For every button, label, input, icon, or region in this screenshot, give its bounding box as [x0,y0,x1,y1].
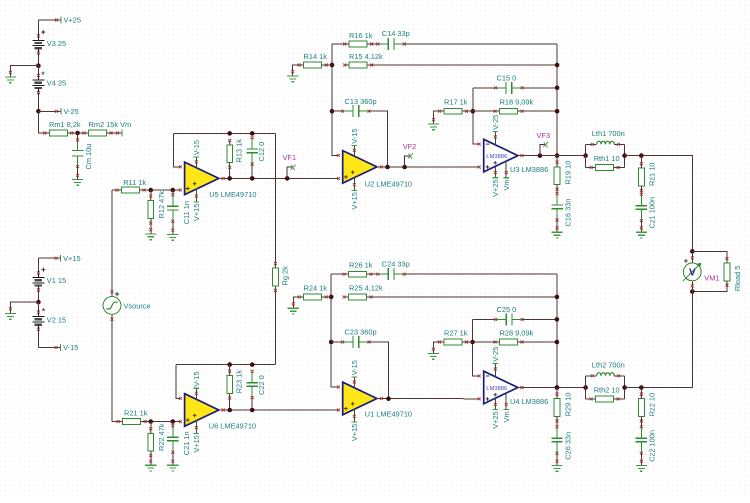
wire U4 output row [518,387,586,389]
wire U3 inverting node [473,88,479,144]
resistor R22 [150,422,152,429]
wire [371,296,557,298]
node junction [622,385,627,390]
svg-text:V+15: V+15 [192,435,201,452]
wire [176,364,275,366]
wire U6 feedback [176,365,180,399]
ground [288,308,299,314]
node junction [555,340,560,345]
capacitor Cz2 [640,427,642,438]
node V-25 tag [38,110,61,112]
resistor R23 [229,371,231,376]
wire [172,221,174,234]
resistor Rth2 [586,398,592,400]
svg-text:C25 0: C25 0 [497,305,517,314]
ground [428,354,439,360]
power pin V-15 [353,377,355,389]
node junction [148,419,153,424]
node junction [385,165,390,170]
svg-text:V-25: V-25 [64,107,79,116]
wire [522,87,557,89]
wire [640,186,642,194]
wire [522,318,557,320]
resistor R28 [495,341,500,343]
wire [326,296,331,298]
node junction V-25 [36,109,41,114]
node junction [171,419,176,424]
capacitor C15 [496,87,506,89]
svg-text:R11 1k: R11 1k [123,178,146,187]
wire R11 row [112,189,117,191]
resistor R26 [344,273,349,275]
wire [640,416,642,426]
wire to ground [10,66,38,77]
svg-text:Cz1 100n: Cz1 100n [648,197,657,229]
svg-text:LM3886: LM3886 [486,154,507,160]
node junction [555,63,560,68]
power pin V-15 [195,388,197,400]
node junction [75,131,80,136]
inductor Lth1 [586,143,597,145]
wire [467,110,473,112]
node junction [171,188,176,193]
svg-text:U2 LME49710: U2 LME49710 [365,179,412,188]
wire R17 ground [434,111,440,124]
wire U2 inverting node [332,44,339,155]
battery V3 [32,39,44,41]
wire [473,110,495,112]
wire R21 row [112,421,118,423]
svg-text:*: * [42,307,46,317]
capacitor Cz1 [640,194,642,205]
wire U5 output row [219,177,339,179]
wire R26 row [331,273,344,275]
node junction [329,295,334,300]
svg-text:R21 1k: R21 1k [124,408,148,417]
resistor R18 [495,110,500,112]
wire C15 row [473,87,496,89]
svg-text:LM3886: LM3886 [486,386,507,392]
op-amp U5 [185,162,219,195]
node junction [470,340,475,345]
svg-text:Lth1 700n: Lth1 700n [592,129,625,138]
svg-text:Rm1 8,2k: Rm1 8,2k [49,120,81,129]
battery V2 [32,316,44,318]
wire [77,133,79,140]
capacitor Cm [77,140,79,150]
svg-text:C21 1n: C21 1n [182,431,191,455]
inductor Lth2 [586,375,597,377]
node junction [639,153,644,158]
svg-text:V-25: V-25 [491,115,500,130]
ground [145,234,156,240]
voltage pin VF1 [287,167,293,178]
resistor R27 [440,341,445,343]
wire L/R loop left [585,144,587,167]
node Vm tag [121,130,123,137]
wire [111,314,113,421]
svg-text:C12 0: C12 0 [257,142,266,162]
ground [5,77,16,83]
svg-text:V+15: V+15 [350,192,359,209]
svg-text:Rth2 10: Rth2 10 [594,386,620,395]
wire [473,341,495,343]
node junction [250,176,255,181]
svg-text:R16 1k: R16 1k [349,31,373,40]
wire [37,66,39,73]
svg-text:U5 LME49710: U5 LME49710 [209,190,256,199]
svg-text:C13 360p: C13 360p [345,97,377,106]
svg-text:C15 0: C15 0 [497,74,517,83]
svg-text:C11 1n: C11 1n [182,201,191,224]
resistor Rload [724,263,730,281]
svg-text:U6 LME49710: U6 LME49710 [209,421,256,430]
wire [625,387,642,389]
node V+25 tag [38,19,61,21]
svg-text:V-15: V-15 [350,128,359,143]
svg-text:V+15: V+15 [63,254,80,263]
svg-text:C14 33p: C14 33p [382,29,410,38]
resistor R15 [345,64,350,66]
svg-text:Vm: Vm [502,411,511,422]
wire [145,421,180,423]
svg-text:R15 4,12k: R15 4,12k [349,52,383,61]
svg-text:V4 25: V4 25 [47,79,66,88]
resistor R19 [556,156,558,167]
node junction [250,408,255,413]
node junction [329,340,334,345]
capacitor C13 [343,110,353,112]
power pin V-25 [494,132,496,145]
node V-15 tag [38,346,60,348]
svg-text:R12 47k: R12 47k [157,191,166,219]
power pin Vm [505,161,507,178]
wire [640,453,642,465]
wire U4 inverting node [473,319,480,376]
capacitor C16 [556,194,558,205]
wire [371,273,378,275]
node junction [690,249,695,254]
capacitor C23 row [331,341,342,343]
svg-text:R28 9,09k: R28 9,09k [500,329,534,338]
power pin V+15 [353,177,355,191]
wire [37,95,39,111]
wire [641,292,692,388]
wire [37,20,39,33]
svg-text:R24 1k: R24 1k [304,284,328,293]
ground [428,124,439,130]
wire U1 output row [377,398,479,400]
resistor R29 [556,388,558,399]
op-amp U3 [484,139,518,172]
node junction [471,109,476,114]
wire [150,223,152,234]
svg-text:R22 47k: R22 47k [157,423,166,451]
wire feedback vertical [556,44,558,156]
wire [72,132,84,134]
wire U3 output row [518,155,586,157]
node junction [36,300,41,305]
svg-text:Rm2 15k Vm: Rm2 15k Vm [89,120,132,129]
voltmeter VM1 [691,251,693,263]
svg-text:R14 1k: R14 1k [304,52,328,61]
wire feedback vertical [556,274,558,387]
capacitor C21 [172,422,174,426]
node junction [555,385,560,390]
node junction [227,362,232,367]
node junction [36,63,41,68]
node junction [227,176,232,181]
ground [167,465,178,471]
svg-text:R26 1k: R26 1k [349,261,373,270]
power pin V+25 [494,398,496,409]
power pin V+15 [353,408,355,422]
node junction VF1 [285,176,290,181]
node V+15 tag [38,257,60,259]
wire [372,64,557,66]
wire [556,220,558,232]
wire L/R loop left [585,376,587,399]
svg-text:Vm: Vm [502,179,511,190]
wire [625,156,693,252]
svg-text:R25 4,12k: R25 4,12k [349,284,383,293]
wire U2 output row [377,166,479,168]
wire R14 left ground [293,65,300,76]
svg-text:C24 33p: C24 33p [382,260,410,269]
power pin V-15 [353,145,355,157]
wire [172,452,174,465]
wire [150,456,152,466]
ground [636,466,647,472]
power pin V+15 [195,420,197,434]
power pin V-25 [494,364,496,378]
wire [38,111,44,133]
power pin Vm [505,393,507,410]
svg-text:VF2: VF2 [403,142,417,151]
node junction [555,295,560,300]
resistor R25 [344,296,349,298]
svg-text:Cm 10u: Cm 10u [84,144,93,170]
resistor Rz1 [640,156,642,169]
node junction [250,131,255,136]
ground [287,76,298,82]
svg-text:Lth2 700n: Lth2 700n [592,361,625,370]
capacitor C26 [556,427,558,438]
op-amp U1 [343,382,377,415]
svg-text:V+15: V+15 [350,424,359,441]
svg-text:VF3: VF3 [537,131,551,140]
svg-text:R23 1k: R23 1k [235,370,244,394]
resistor R16 [345,43,350,45]
wire [372,43,378,45]
svg-text:Rload 5: Rload 5 [733,266,742,291]
wire U1 inverting node [331,274,338,387]
wire [692,251,727,263]
node junction [386,396,391,401]
wire [326,64,332,66]
wire L/R loop right [624,144,626,167]
svg-text:V+15: V+15 [192,204,201,221]
svg-text:V: V [689,268,696,279]
capacitor C23 [343,341,353,343]
svg-text:R18 9,09k: R18 9,09k [500,98,534,107]
svg-text:V3 25: V3 25 [47,39,66,48]
wire [37,55,39,65]
voltage source Vsource [103,297,121,315]
svg-text:U3 LM3886: U3 LM3886 [510,165,548,174]
resistor Rg [274,133,276,263]
svg-text:V-15: V-15 [192,140,201,155]
capacitor C22 [251,371,253,382]
wire U6 output row [219,409,339,411]
op-amp U2 [343,151,377,184]
node junction [555,153,560,158]
svg-text:V+25: V+25 [491,411,500,428]
resistor R12 [150,190,152,196]
resistor R21 [118,421,123,423]
svg-text:*: * [41,70,45,80]
svg-text:V-15: V-15 [350,360,359,375]
wire to ground [10,302,38,313]
svg-text:R27 1k: R27 1k [444,329,468,338]
ground [72,180,83,186]
svg-text:Rz1 10: Rz1 10 [648,163,657,186]
power pin V+15 [195,188,197,202]
node junction [555,317,560,322]
svg-text:V-15: V-15 [63,343,78,352]
capacitor C14 [378,43,388,45]
wire [692,281,727,292]
battery V4 [32,79,44,81]
voltage pin VF2 [405,156,411,167]
node junction [622,153,627,158]
resistor R11 [117,189,122,191]
wire [556,453,558,465]
capacitor C25 [496,318,506,320]
capacitor C11 [172,190,174,195]
power pin V-15 [195,157,197,169]
node junction VF3 [538,153,543,158]
resistor R17 [440,110,445,112]
wire [144,189,180,191]
svg-text:U4 LM3886: U4 LM3886 [510,397,548,406]
svg-text:V1 15: V1 15 [47,276,66,285]
wire [111,190,113,296]
wire [369,342,389,399]
svg-text:R29 10: R29 10 [563,392,572,416]
wire [37,332,39,348]
power pin V+25 [494,166,496,177]
resistor Rm1 [45,132,50,134]
node junction [330,109,335,114]
svg-text:C16 33n: C16 33n [563,199,572,227]
svg-text:VM1: VM1 [704,274,719,283]
node junction [250,362,255,367]
svg-text:C23 360p: C23 360p [345,328,377,337]
svg-text:V2 15: V2 15 [47,315,66,324]
svg-text:R17 1k: R17 1k [444,98,468,107]
svg-text:V-15: V-15 [192,371,201,386]
battery V1 [32,276,44,278]
node junction [555,86,560,91]
resistor R13 [229,140,231,145]
svg-text:R19 10: R19 10 [563,161,572,185]
wire [174,132,276,134]
svg-text:Rg 2k: Rg 2k [281,266,290,286]
ground [552,232,563,238]
wire [37,293,39,303]
wire [37,258,39,270]
wire [404,43,557,45]
wire [111,132,122,134]
op-amp U4 [484,371,518,404]
resistor Rth1 [586,166,592,168]
svg-text:V+25: V+25 [64,16,81,25]
svg-text:VF1: VF1 [283,153,297,162]
node junction [555,109,560,114]
svg-text:V+25: V+25 [491,179,500,196]
svg-text:V-25: V-25 [491,347,500,362]
wire [404,273,557,275]
svg-text:C22 0: C22 0 [257,375,266,395]
wire R27 ground [433,342,439,354]
wire [522,341,557,343]
wire [37,302,39,310]
wire R24 left ground [293,297,300,308]
svg-text:Cz2 100n: Cz2 100n [648,430,657,462]
wire U5 feedback [174,133,181,166]
wire R16 row [332,43,345,45]
capacitor C12 [251,138,253,149]
wire [77,166,79,179]
node junction VF2 [402,165,407,170]
capacitor C24 [378,273,388,275]
resistor R24 [299,296,304,298]
resistor Rz2 [640,388,642,399]
wire L/R loop right [624,376,626,399]
ground [551,466,562,472]
ground [636,232,647,238]
node junction [583,385,588,390]
capacitor C13 row [332,110,343,112]
wire [640,221,642,233]
node junction [583,153,588,158]
svg-text:Vsource: Vsource [124,301,151,310]
node junction [555,385,560,390]
ground [145,465,156,471]
resistor R14 [299,64,304,66]
node junction [639,385,644,390]
ground [167,235,178,241]
wire [556,185,558,194]
wire [556,416,558,426]
wire C25 row [473,318,496,320]
resistor Rm2 [84,132,89,134]
svg-text:R13 1k: R13 1k [235,139,244,163]
node junction [227,408,232,413]
svg-text:Rth1 10: Rth1 10 [594,154,620,163]
op-amp U6 [185,394,219,427]
wire [467,341,473,343]
wire [522,110,557,112]
node junction [227,131,232,136]
voltage pin VF3 [540,144,546,155]
node junction [148,188,153,193]
svg-text:U1 LME49710: U1 LME49710 [365,410,412,419]
wire [369,111,388,167]
ground [5,314,16,320]
svg-text:Rz2 10: Rz2 10 [648,393,657,416]
